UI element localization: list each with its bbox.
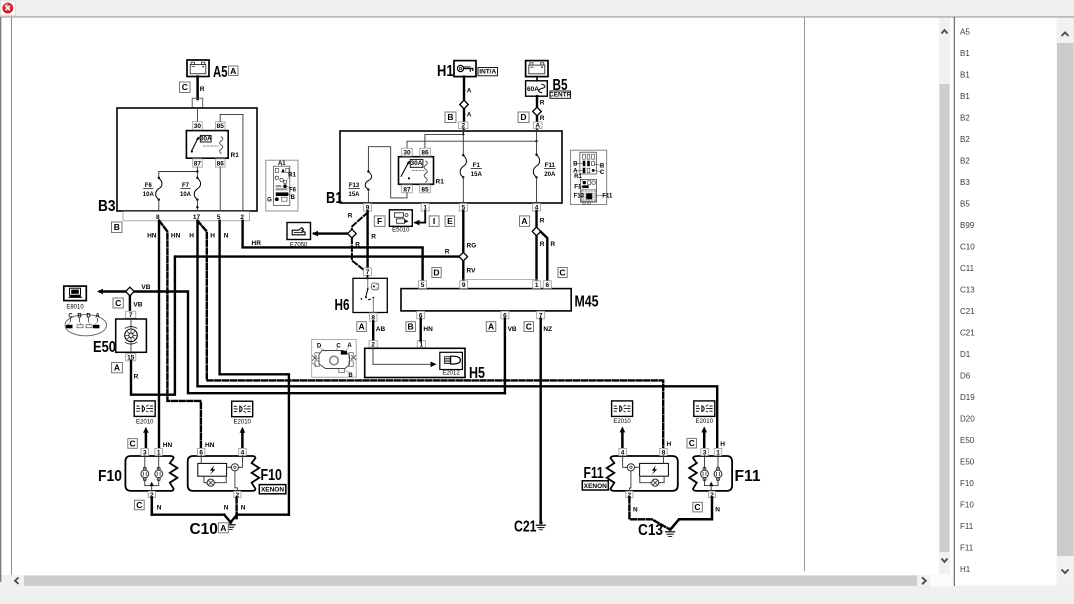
svg-text:N: N (633, 507, 638, 514)
svg-text:F10: F10 (98, 468, 122, 485)
svg-text:F11: F11 (602, 193, 613, 199)
svg-text:R: R (371, 234, 376, 241)
svg-text:H: H (720, 441, 725, 448)
svg-text:20A: 20A (544, 172, 556, 178)
svg-text:F10: F10 (261, 467, 283, 484)
svg-text:30A: 30A (200, 135, 212, 142)
svg-text:E: E (447, 216, 453, 226)
svg-text:B2: B2 (960, 157, 970, 166)
svg-text:B: B (348, 373, 353, 379)
svg-text:F11: F11 (584, 465, 604, 482)
svg-text:6: 6 (545, 282, 549, 289)
svg-text:86: 86 (217, 160, 225, 167)
svg-text:10A: 10A (143, 192, 155, 198)
svg-text:HN: HN (205, 442, 215, 449)
svg-text:A: A (230, 66, 236, 76)
svg-text:C21: C21 (960, 307, 975, 316)
svg-text:R: R (540, 100, 545, 107)
svg-text:87: 87 (403, 186, 411, 193)
svg-text:VB: VB (141, 284, 150, 291)
svg-text:A: A (467, 112, 472, 119)
svg-text:HN: HN (423, 326, 433, 333)
svg-text:B: B (600, 164, 605, 170)
svg-text:15A: 15A (471, 172, 483, 178)
svg-text:A1: A1 (278, 161, 286, 167)
svg-text:HN: HN (171, 233, 181, 240)
svg-text:R: R (445, 249, 450, 256)
svg-text:N: N (224, 233, 229, 240)
svg-text:B: B (114, 222, 120, 232)
svg-text:C: C (600, 170, 605, 176)
svg-text:G: G (267, 198, 272, 204)
svg-text:C: C (694, 502, 700, 512)
svg-text:INT/A: INT/A (479, 68, 496, 75)
svg-text:A: A (114, 363, 120, 373)
svg-text:E8010: E8010 (66, 305, 84, 311)
svg-text:E5010: E5010 (392, 228, 410, 234)
svg-text:15A: 15A (348, 192, 360, 198)
svg-text:C13: C13 (638, 522, 663, 539)
svg-text:C10: C10 (960, 243, 975, 252)
svg-text:B3: B3 (960, 178, 970, 187)
svg-text:R1: R1 (288, 173, 296, 179)
svg-text:D19: D19 (960, 393, 975, 402)
svg-text:9: 9 (462, 282, 466, 289)
svg-text:C: C (182, 82, 188, 92)
svg-text:D: D (317, 343, 322, 349)
svg-text:F11: F11 (735, 468, 761, 485)
svg-text:F6: F6 (289, 188, 297, 194)
svg-text:I: I (433, 216, 435, 226)
svg-text:B1: B1 (960, 71, 970, 80)
svg-text:C: C (130, 439, 136, 449)
svg-text:XENON: XENON (584, 483, 607, 490)
svg-text:N: N (157, 505, 162, 512)
svg-text:30A: 30A (411, 160, 423, 167)
svg-text:D1: D1 (960, 350, 971, 359)
svg-text:H1: H1 (437, 63, 454, 80)
svg-text:F6: F6 (145, 183, 153, 189)
svg-text:F10: F10 (960, 501, 974, 510)
svg-text:R: R (540, 115, 545, 122)
svg-text:A: A (488, 322, 494, 332)
svg-text:R: R (134, 374, 139, 381)
svg-text:NZ: NZ (543, 326, 552, 333)
svg-text:10A: 10A (180, 192, 192, 198)
svg-text:H: H (189, 233, 194, 240)
svg-text:F1: F1 (473, 163, 481, 169)
svg-text:B99: B99 (960, 221, 975, 230)
svg-text:C: C (115, 298, 121, 308)
svg-text:N: N (715, 507, 720, 514)
svg-text:F: F (377, 216, 382, 226)
svg-text:87: 87 (194, 160, 202, 167)
svg-text:B: B (573, 161, 578, 167)
svg-text:C: C (559, 268, 565, 278)
svg-text:B1: B1 (960, 49, 970, 58)
svg-text:XENON: XENON (261, 487, 284, 494)
svg-text:A5: A5 (960, 28, 970, 37)
svg-text:5: 5 (421, 282, 425, 289)
svg-text:N: N (241, 505, 246, 512)
svg-text:E2010: E2010 (696, 419, 714, 425)
svg-text:H5: H5 (469, 365, 485, 382)
svg-text:RV: RV (467, 268, 477, 275)
svg-text:HN: HN (147, 233, 157, 240)
svg-text:H6: H6 (335, 297, 350, 314)
svg-text:B: B (447, 112, 453, 122)
svg-text:R: R (348, 213, 353, 220)
svg-text:HN: HN (163, 442, 173, 449)
svg-text:HR: HR (252, 240, 262, 247)
svg-text:N: N (224, 505, 229, 512)
svg-text:1: 1 (535, 282, 539, 289)
svg-text:RG: RG (467, 243, 477, 250)
svg-text:CENTR: CENTR (549, 91, 572, 98)
svg-text:B3: B3 (98, 198, 116, 215)
svg-text:D: D (520, 112, 526, 122)
svg-text:R: R (550, 241, 555, 248)
svg-text:M45: M45 (575, 294, 599, 311)
svg-text:C11: C11 (960, 264, 975, 273)
svg-text:A5: A5 (213, 64, 228, 81)
svg-text:F1: F1 (574, 184, 582, 190)
svg-text:R: R (540, 241, 545, 248)
svg-text:F13: F13 (574, 193, 585, 199)
svg-text:AB: AB (376, 326, 386, 333)
svg-text:D6: D6 (960, 372, 971, 381)
svg-text:B1: B1 (326, 190, 343, 207)
svg-text:B2: B2 (960, 114, 970, 123)
svg-text:E2010: E2010 (136, 419, 154, 425)
svg-text:C: C (526, 322, 532, 332)
svg-text:F13: F13 (349, 183, 360, 189)
svg-text:F10: F10 (960, 479, 974, 488)
svg-text:F11: F11 (960, 522, 974, 531)
svg-text:R: R (200, 86, 205, 93)
svg-text:B5: B5 (960, 200, 970, 209)
svg-text:R1: R1 (231, 152, 240, 159)
svg-text:C21: C21 (514, 518, 537, 535)
svg-text:B: B (291, 195, 296, 201)
svg-text:D20: D20 (960, 415, 975, 424)
svg-text:R: R (540, 218, 545, 225)
svg-text:85: 85 (421, 186, 429, 193)
svg-text:B2: B2 (960, 135, 970, 144)
svg-text:C: C (689, 438, 695, 448)
svg-text:E2010: E2010 (613, 419, 631, 425)
svg-text:A: A (467, 88, 472, 95)
svg-text:E2012: E2012 (442, 370, 460, 376)
svg-text:H: H (210, 233, 215, 240)
svg-text:86: 86 (421, 150, 429, 157)
svg-text:85: 85 (217, 123, 225, 130)
svg-text:E50: E50 (93, 339, 116, 356)
svg-text:B1: B1 (960, 92, 970, 101)
svg-text:H1: H1 (960, 565, 971, 574)
svg-text:60A: 60A (527, 86, 539, 93)
svg-text:VB: VB (508, 326, 517, 333)
svg-text:C13: C13 (960, 286, 975, 295)
svg-text:A: A (359, 322, 365, 332)
svg-text:C21: C21 (960, 329, 975, 338)
svg-text:F7: F7 (182, 183, 190, 189)
svg-text:F11: F11 (960, 544, 974, 553)
svg-text:B: B (408, 322, 414, 332)
svg-text:30: 30 (403, 150, 411, 157)
svg-text:F11: F11 (545, 163, 556, 169)
svg-text:E50: E50 (960, 458, 975, 467)
svg-text:E7050: E7050 (290, 243, 308, 249)
svg-text:R1: R1 (436, 179, 445, 186)
svg-text:C: C (136, 500, 142, 510)
svg-text:E2010: E2010 (234, 419, 252, 425)
svg-text:H: H (667, 441, 672, 448)
svg-text:C10: C10 (190, 521, 218, 538)
svg-text:D: D (433, 268, 439, 278)
svg-text:30: 30 (194, 123, 202, 130)
svg-text:E50: E50 (960, 436, 975, 445)
svg-text:A: A (521, 216, 527, 226)
svg-text:A: A (220, 523, 226, 533)
svg-text:VB: VB (133, 302, 142, 309)
svg-text:R: R (355, 242, 360, 249)
